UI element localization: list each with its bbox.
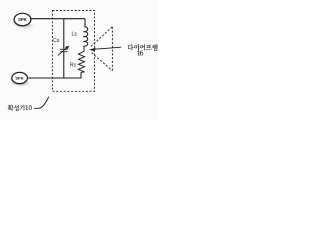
- svg-text:SPK: SPK: [15, 76, 23, 81]
- svg-text:Cs: Cs: [53, 38, 60, 44]
- svg-text:Ls: Ls: [72, 32, 78, 38]
- svg-text:Rs: Rs: [70, 62, 77, 68]
- svg-text:SPK: SPK: [18, 17, 27, 22]
